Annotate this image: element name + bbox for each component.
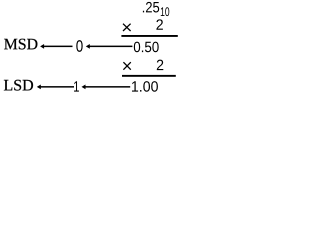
subscript 10 (base label)	[161, 7, 169, 16]
carry digit 1	[74, 81, 79, 91]
result 0.50	[134, 42, 159, 53]
value .25 (decimal fraction)	[143, 2, 159, 13]
label MSD	[4, 39, 37, 50]
wire 0.50 arrow shaft	[89, 46, 132, 48]
multiply sign row1	[123, 24, 131, 31]
wire LSD arrow shaft	[40, 86, 74, 88]
carry digit 0	[76, 40, 82, 52]
wire MSD arrow shaft	[44, 46, 73, 48]
product rule line 2	[122, 75, 176, 77]
background	[0, 0, 185, 102]
label LSD	[4, 80, 33, 91]
multiplier 2 row1	[156, 19, 162, 29]
arrow from digit 0 to MSD	[40, 44, 44, 49]
product rule line 1	[121, 35, 177, 37]
multiplier 2 row2	[157, 60, 163, 70]
multiply sign row2	[123, 62, 130, 69]
arrow from digit 1 to LSD	[37, 85, 41, 90]
arrow from 0.50 to digit 0	[86, 44, 90, 49]
arrow from 1.00 to digit 1	[82, 85, 86, 90]
result 1.00	[132, 81, 158, 92]
wire 1.00 arrow shaft	[85, 86, 130, 88]
